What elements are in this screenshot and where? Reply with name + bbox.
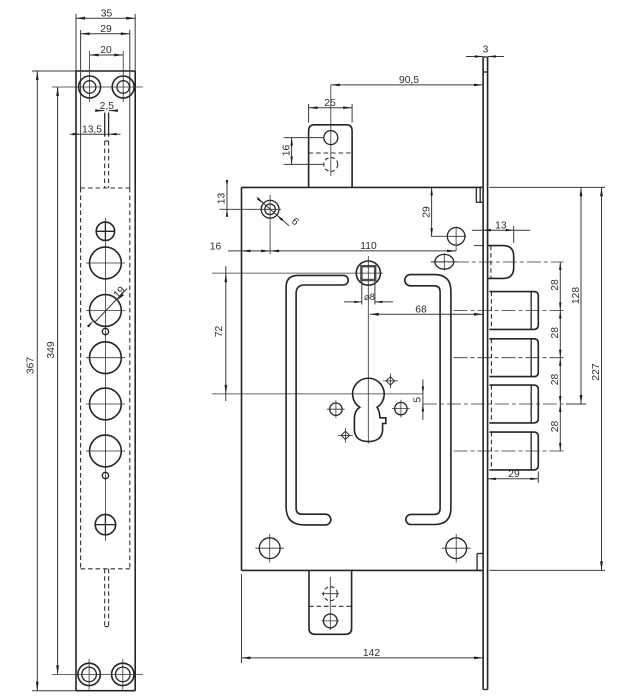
- svg-text:28: 28: [550, 327, 561, 339]
- top screw hole right: [112, 51, 134, 102]
- svg-text:19: 19: [112, 285, 128, 301]
- phillips screw top: [96, 222, 114, 240]
- dimension line 16 and 110 shared: [210, 241, 456, 252]
- svg-text:29: 29: [508, 469, 520, 480]
- case edge extension lines right of faceplate: [489, 187, 605, 570]
- dimension 20 screw spacing: [90, 45, 124, 56]
- svg-text:3: 3: [483, 45, 489, 56]
- svg-text:28: 28: [550, 421, 561, 433]
- latch centerline: [431, 261, 564, 263]
- svg-text:349: 349: [46, 341, 57, 358]
- svg-text:68: 68: [415, 305, 427, 316]
- dimension 13 follower from top: [217, 180, 229, 217]
- small pin hole lower: [102, 472, 108, 478]
- svg-text:2,5: 2,5: [100, 101, 115, 112]
- svg-text:20: 20: [100, 45, 112, 56]
- pin3 centerline: [423, 403, 564, 405]
- bolt hole 2 with diameter 19 callout: [86, 285, 128, 328]
- dimension 16 tab hole spacing: [282, 138, 324, 165]
- dimension 72: [214, 266, 227, 401]
- diameter 6 callout: [257, 197, 301, 228]
- svg-text:⌀8: ⌀8: [364, 292, 375, 302]
- dimension 13,5: [70, 125, 121, 136]
- svg-text:90,5: 90,5: [399, 75, 419, 86]
- dimension 227: [591, 187, 603, 570]
- svg-text:29: 29: [100, 24, 112, 35]
- svg-text:142: 142: [363, 648, 380, 659]
- faceplate front view outline: [76, 71, 135, 691]
- svg-text:25: 25: [324, 98, 336, 109]
- lock case outline: [242, 187, 483, 570]
- case screw boss left: [255, 534, 284, 563]
- svg-text:28: 28: [550, 374, 561, 386]
- dimension 25 tab width: [309, 98, 353, 123]
- svg-text:110: 110: [360, 241, 377, 252]
- bottom mounting tab: [309, 570, 352, 634]
- bolt hole 5: [86, 435, 125, 467]
- bottom tab hole: [322, 614, 340, 628]
- narrow slot in faceplate: [105, 113, 109, 137]
- dimension 142: [242, 574, 484, 663]
- bottom screw hole left: [78, 659, 100, 690]
- deadbolt pins: [489, 292, 538, 330]
- case screw boss right: [442, 534, 471, 563]
- faceplate side view: [483, 57, 488, 690]
- dimension 13 latch: [472, 220, 530, 243]
- dimension 367 overall faceplate height: [25, 71, 76, 691]
- bottom tab dashed hole: [322, 587, 340, 601]
- small pin hole upper: [102, 328, 108, 334]
- dimension 349 screw center distance: [46, 87, 59, 674]
- dimension chain 28 x4: [550, 262, 562, 451]
- bolt hole 1: [86, 247, 125, 279]
- latch follower hole: [220, 195, 282, 254]
- dimension 8 square: [344, 281, 393, 305]
- bottom screw hole right: [112, 659, 134, 690]
- svg-text:16: 16: [282, 145, 293, 157]
- cylinder follower with square hole: [356, 261, 383, 285]
- svg-text:28: 28: [550, 279, 561, 291]
- dimension 90,5: [331, 75, 483, 176]
- hidden lock case outline (dashed) behind faceplate: [81, 188, 130, 569]
- svg-text:72: 72: [214, 326, 225, 338]
- bottom screws horizontal centerline: [52, 673, 143, 675]
- notch in case top edge: [476, 187, 482, 202]
- dimension 35 faceplate width: [76, 8, 135, 71]
- latch bolt: [474, 246, 514, 279]
- top mounting tab: [309, 125, 353, 188]
- svg-text:6: 6: [289, 216, 301, 228]
- faceplate inner edge lines: [81, 30, 130, 188]
- euro profile cylinder hole: [353, 378, 386, 441]
- screw hole left of keyhole: [327, 400, 345, 418]
- bolt hole 4: [86, 388, 125, 420]
- center vertical axis line: [367, 256, 369, 444]
- dimension 128: [566, 187, 586, 404]
- left spring bracket: [286, 275, 348, 525]
- bolt hole 3: [86, 342, 125, 374]
- cylinder horizontal extension to 72 dim: [212, 272, 356, 274]
- svg-text:5: 5: [413, 397, 424, 403]
- screw hole right of keyhole: [392, 400, 410, 418]
- tab hole: [324, 131, 338, 145]
- pin centerlines: [454, 310, 564, 312]
- dashed slot centerline upper: [105, 141, 109, 188]
- dimension 3 faceplate thickness: [466, 45, 504, 58]
- svg-text:13: 13: [495, 220, 507, 231]
- dimension 29 from case top: [421, 187, 433, 236]
- notch in case bottom edge: [477, 554, 483, 571]
- svg-text:367: 367: [25, 357, 36, 374]
- svg-text:227: 227: [591, 363, 602, 380]
- svg-text:35: 35: [101, 8, 113, 19]
- bottom tab fold line dashed: [309, 605, 352, 607]
- dimension 68: [370, 305, 483, 316]
- latch cam hole (ellipse): [431, 253, 458, 271]
- top screw hole left: [79, 51, 101, 102]
- svg-text:13: 13: [217, 193, 228, 205]
- diamond position mark lower: [338, 428, 353, 443]
- dimension 2,5 slot width: [95, 101, 118, 112]
- dimension 5: [413, 379, 424, 419]
- dashed slot centerline lower: [105, 569, 109, 627]
- diamond position mark upper: [383, 374, 398, 389]
- phillips screw bottom: [95, 514, 115, 534]
- tab dashed fold line: [309, 152, 353, 154]
- tab hidden hole (dashed): [324, 157, 338, 171]
- svg-text:13,5: 13,5: [82, 125, 102, 136]
- svg-text:29: 29: [421, 206, 432, 218]
- right spring bracket: [405, 275, 451, 525]
- upper right hole with 29 reference: [431, 227, 467, 251]
- faceplate vertical centerline: [104, 218, 106, 541]
- screw holes horizontal centerline: [52, 86, 143, 88]
- keyhole horizontal centerline: [212, 393, 423, 395]
- svg-text:16: 16: [210, 241, 222, 252]
- svg-text:128: 128: [571, 287, 582, 304]
- dimension 29 pin length: [488, 469, 539, 483]
- dimension 29 inner width: [81, 24, 130, 35]
